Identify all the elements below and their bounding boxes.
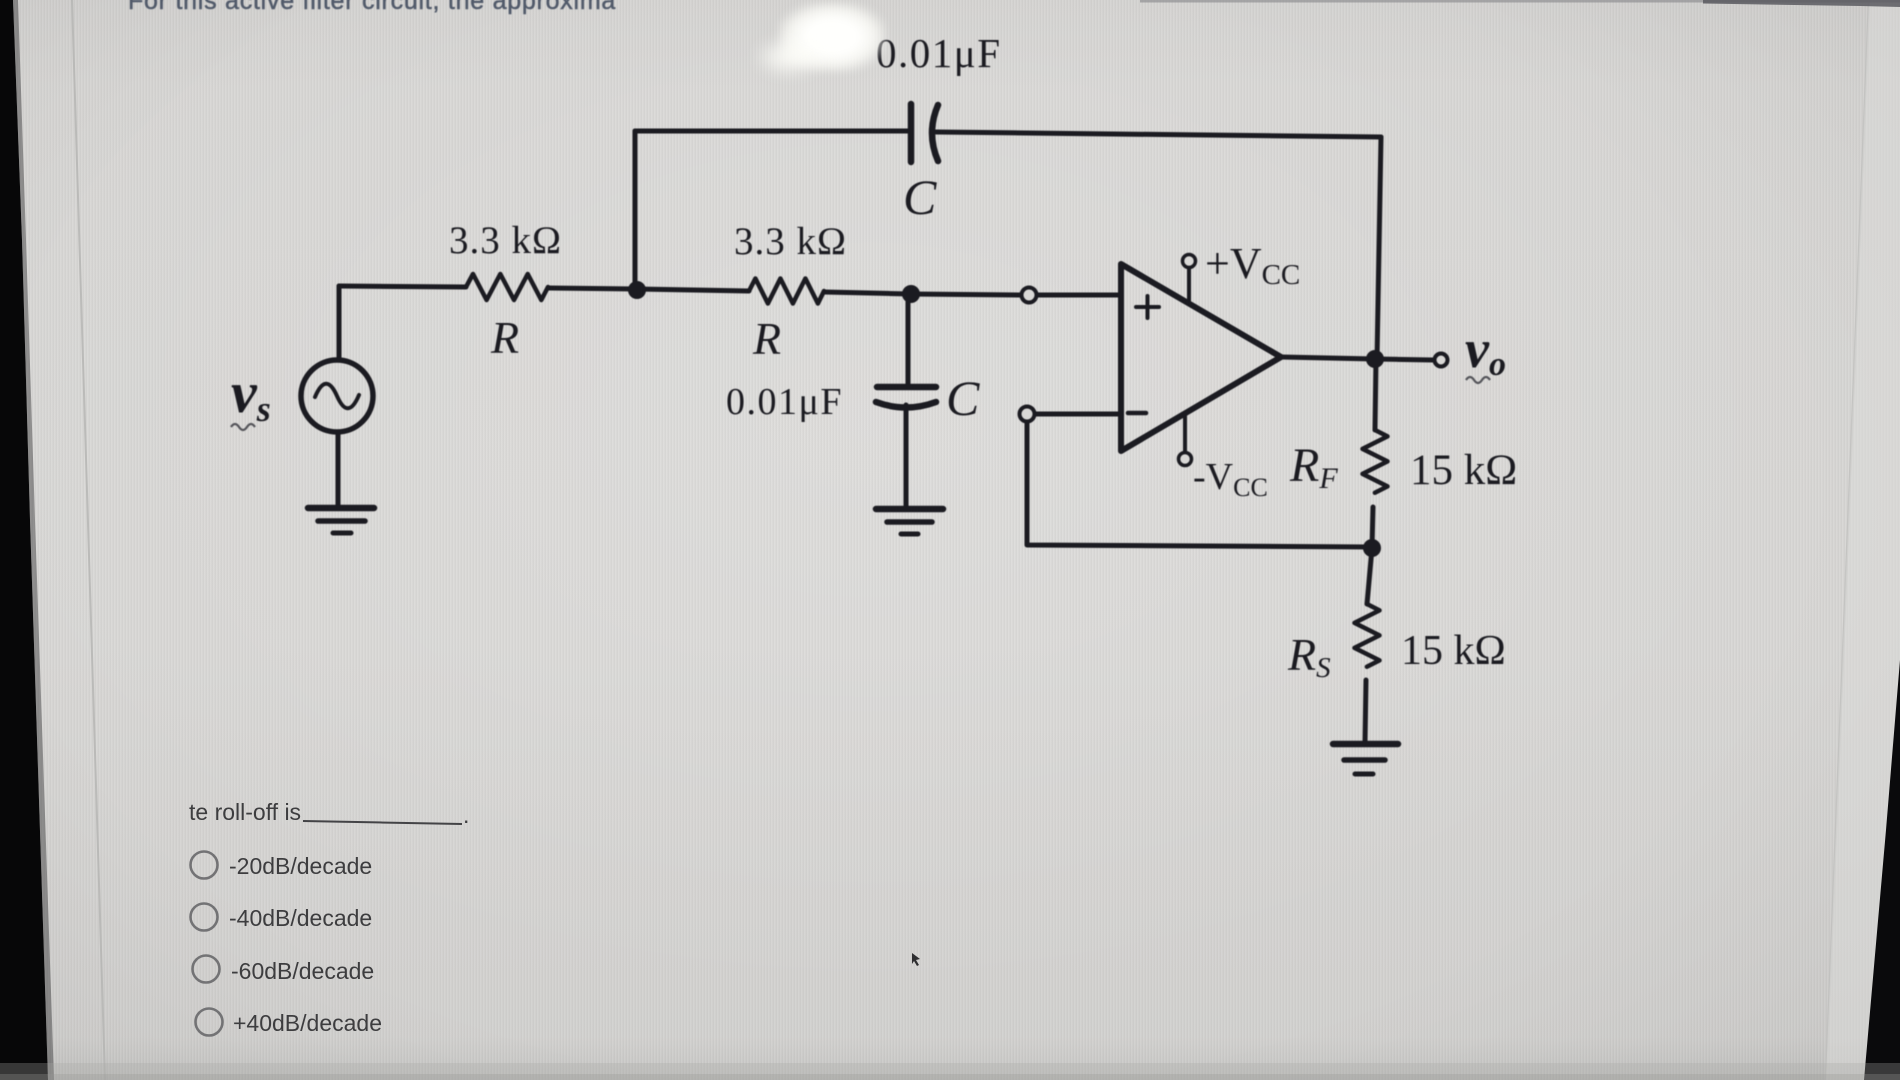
source Us bbox=[301, 360, 373, 432]
op-amp U1 triangle bbox=[1121, 264, 1281, 451]
top right dark line bbox=[1140, 0, 1900, 3]
glare spot bbox=[778, 2, 886, 72]
node A dot bbox=[628, 281, 646, 299]
wire node A up bbox=[633, 131, 638, 289]
- input open circle bbox=[1020, 407, 1035, 422]
-Vcc pin bbox=[1183, 413, 1187, 452]
radio 1 bbox=[191, 852, 218, 879]
wire cap to ground bbox=[904, 405, 909, 508]
radio 3 bbox=[193, 956, 220, 983]
feedback node dot bbox=[1363, 539, 1381, 557]
radio 2 bbox=[191, 904, 218, 931]
plus sign bbox=[1136, 296, 1159, 318]
capacitor C mid bottom plate bbox=[876, 402, 936, 408]
resistor R2 bbox=[749, 279, 824, 304]
capacitor C mid top plate bbox=[877, 384, 936, 391]
Rs top wire bbox=[1367, 548, 1372, 604]
wire source to R bbox=[339, 286, 466, 287]
wire + circle to opamp bbox=[1037, 293, 1121, 298]
right bottom black wedge bbox=[1864, 660, 1900, 1080]
RF bottom wire bbox=[1372, 507, 1373, 548]
top partially cropped blue question text bbox=[128, 0, 616, 16]
+Vcc open circle bbox=[1183, 255, 1196, 268]
ground source bars bbox=[308, 505, 374, 512]
underline blank bbox=[303, 821, 462, 824]
wire source to ground bbox=[336, 432, 341, 506]
wire top rail left bbox=[635, 129, 908, 134]
resistor RF zigzag bbox=[1363, 430, 1388, 493]
radio 4 bbox=[196, 1009, 223, 1036]
+ input open circle bbox=[1022, 288, 1037, 303]
mouse cursor bbox=[912, 953, 920, 966]
node B dot bbox=[902, 285, 920, 303]
output node dot bbox=[1366, 350, 1384, 368]
+Vcc pin bbox=[1187, 268, 1191, 303]
ground mid bars bbox=[876, 506, 943, 513]
minus sign bbox=[1128, 411, 1146, 416]
capacitor C top left plate bbox=[908, 104, 915, 162]
wire node B to + input bbox=[911, 294, 1021, 295]
output wire bbox=[1281, 357, 1433, 360]
wire cap C mid down bbox=[906, 294, 911, 384]
RF top wire bbox=[1375, 359, 1376, 430]
-Vcc open circle bbox=[1179, 453, 1192, 466]
bottom darker band bbox=[0, 1063, 1900, 1080]
feedback wire bottom bbox=[1027, 421, 1372, 547]
Rs bottom wire bbox=[1365, 680, 1366, 742]
wire node A to R2 bbox=[637, 289, 749, 291]
capacitor C top right plate bbox=[932, 105, 938, 161]
wire - circle to opamp bbox=[1035, 412, 1121, 417]
wire down to output bbox=[1377, 137, 1381, 359]
squiggle under Us bbox=[231, 424, 255, 430]
wire top rail right bbox=[936, 132, 1381, 137]
squiggle under Vo bbox=[1466, 377, 1490, 383]
wire R2 to node B bbox=[824, 292, 911, 294]
resistor R1 bbox=[466, 274, 548, 300]
left seam bbox=[72, 0, 105, 1080]
ground Rs bars bbox=[1333, 741, 1398, 748]
resistor Rs zigzag bbox=[1355, 604, 1380, 667]
wire R1 to node A bbox=[548, 288, 637, 289]
right seam bbox=[1826, 0, 1869, 1080]
wire source top bbox=[337, 286, 342, 360]
output open circle bbox=[1435, 354, 1448, 367]
